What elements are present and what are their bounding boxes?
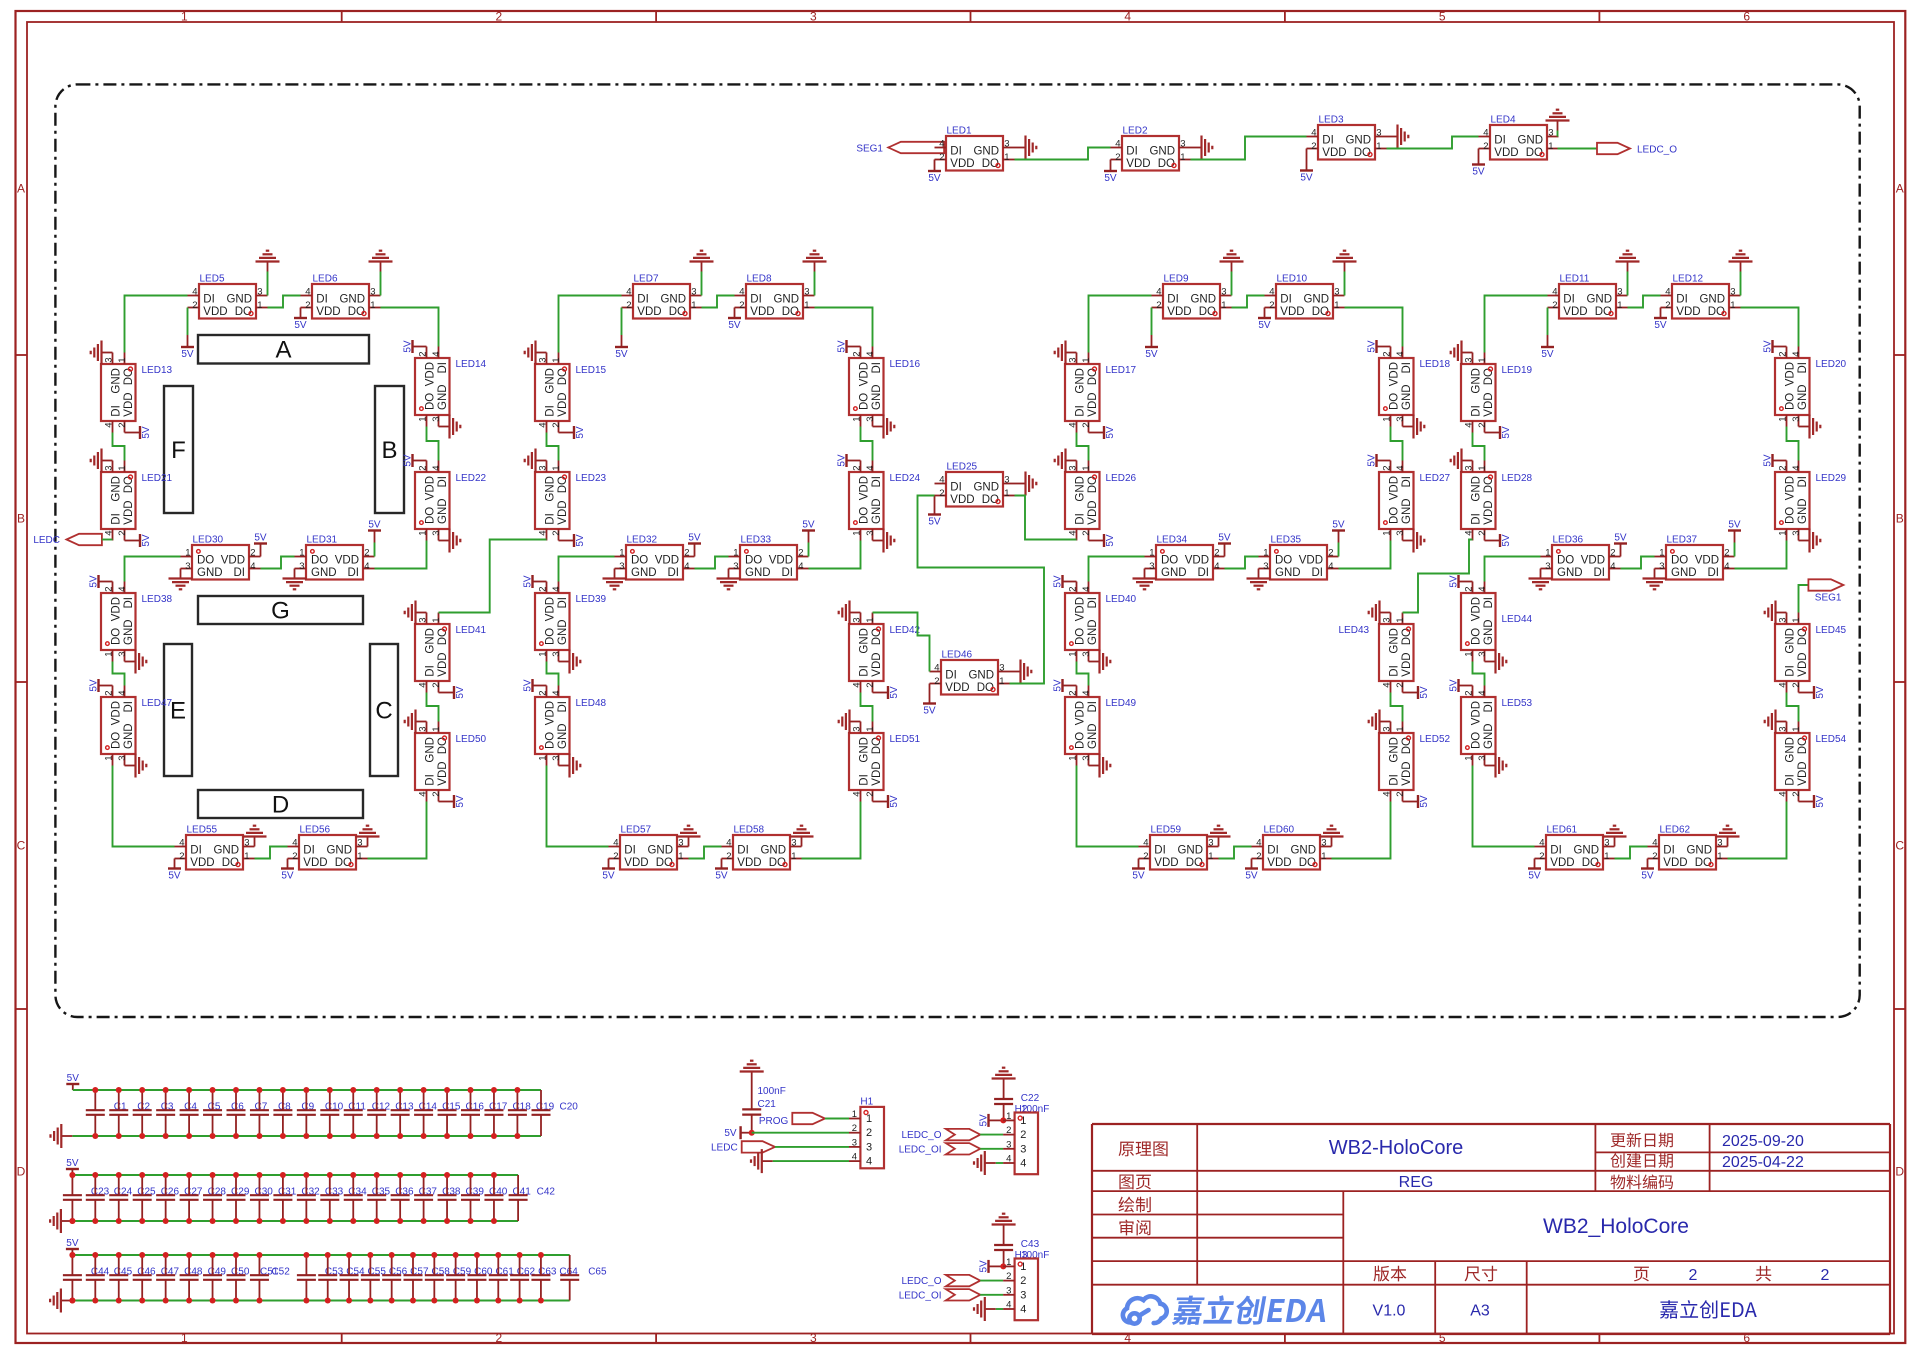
svg-text:VDD: VDD xyxy=(871,761,883,785)
svg-text:2: 2 xyxy=(1382,465,1393,470)
svg-text:DI: DI xyxy=(545,405,557,417)
svg-text:1: 1 xyxy=(1464,652,1475,657)
port LEDC_OI xyxy=(899,1143,981,1155)
svg-text:4: 4 xyxy=(1395,465,1406,470)
svg-text:3: 3 xyxy=(1464,465,1475,470)
5V (LED46) xyxy=(923,684,936,717)
svg-text:VDD: VDD xyxy=(1785,362,1797,386)
svg-text:DI: DI xyxy=(190,845,202,857)
svg-text:G: G xyxy=(271,598,290,625)
wire xyxy=(1219,847,1252,859)
svg-text:5V: 5V xyxy=(1815,795,1826,808)
svg-text:DI: DI xyxy=(545,513,557,525)
wire xyxy=(1741,308,1799,347)
5V (LED49) xyxy=(1053,679,1077,692)
ground (LED57) xyxy=(677,826,701,847)
capacitor C31 xyxy=(250,1175,297,1221)
5V (LED43) xyxy=(1403,686,1431,699)
svg-text:GND: GND xyxy=(1573,845,1599,857)
svg-text:2: 2 xyxy=(1791,792,1802,797)
addressable LED LED19 xyxy=(1461,353,1533,433)
svg-text:DI: DI xyxy=(1708,567,1720,579)
ground (LED35) xyxy=(1247,569,1271,590)
5V (LED39) xyxy=(523,575,547,588)
svg-text:LED25: LED25 xyxy=(947,462,978,473)
svg-text:1: 1 xyxy=(299,548,304,559)
5V (LED10) xyxy=(1258,308,1271,332)
svg-text:2: 2 xyxy=(496,10,503,24)
svg-text:DI: DI xyxy=(1267,845,1279,857)
ground (LED59) xyxy=(1207,826,1231,847)
5V (LED24) xyxy=(837,454,861,467)
svg-text:3: 3 xyxy=(1081,652,1092,657)
svg-text:DI: DI xyxy=(557,597,569,609)
svg-text:1: 1 xyxy=(1068,652,1079,657)
wire LED46-LED25 xyxy=(918,496,1045,684)
svg-text:DI: DI xyxy=(1075,513,1087,525)
svg-text:1: 1 xyxy=(370,300,375,311)
svg-text:VDD: VDD xyxy=(1267,857,1291,869)
svg-text:DI: DI xyxy=(111,513,123,525)
ground (LED36) xyxy=(1529,569,1553,590)
header H2 xyxy=(1003,1111,1038,1174)
svg-text:DO: DO xyxy=(859,393,871,410)
capacitor C17 xyxy=(461,1090,508,1136)
svg-text:5V: 5V xyxy=(1105,426,1116,439)
svg-text:1: 1 xyxy=(1477,465,1488,470)
svg-text:1: 1 xyxy=(418,531,429,536)
svg-text:LED17: LED17 xyxy=(1106,365,1137,376)
svg-text:4: 4 xyxy=(117,586,128,591)
svg-text:5V: 5V xyxy=(1654,320,1667,331)
junction xyxy=(69,1172,75,1178)
svg-text:4: 4 xyxy=(431,351,442,356)
5V (LED4) xyxy=(1472,149,1485,178)
svg-text:D: D xyxy=(17,1164,26,1178)
addressable LED LED9 xyxy=(1152,274,1232,319)
addressable LED LED38 xyxy=(101,582,173,662)
junction xyxy=(210,1133,216,1139)
svg-text:3: 3 xyxy=(866,1141,872,1153)
addressable LED LED24 xyxy=(849,461,921,541)
junction xyxy=(491,1218,497,1224)
svg-text:LED23: LED23 xyxy=(576,473,607,484)
svg-text:1: 1 xyxy=(852,417,863,422)
junction xyxy=(374,1087,380,1093)
5V (LED20) xyxy=(1763,340,1787,353)
svg-text:1: 1 xyxy=(678,851,683,862)
addressable LED LED2 xyxy=(1111,126,1191,171)
svg-text:3: 3 xyxy=(538,465,549,470)
addressable LED LED23 xyxy=(535,461,607,541)
svg-text:5V: 5V xyxy=(1763,340,1774,353)
svg-text:1: 1 xyxy=(1004,488,1009,499)
junction xyxy=(350,1218,356,1224)
capacitor C43 xyxy=(994,1235,1039,1267)
addressable LED LED4 xyxy=(1479,115,1559,160)
junction xyxy=(69,1218,75,1224)
wire xyxy=(267,272,269,296)
wire xyxy=(547,662,559,686)
svg-text:5V: 5V xyxy=(523,575,534,588)
junction xyxy=(186,1087,192,1093)
capacitor C32 xyxy=(273,1175,320,1221)
svg-text:2: 2 xyxy=(1610,548,1615,559)
ground (LED27) xyxy=(1403,529,1425,553)
svg-text:5V: 5V xyxy=(403,454,414,467)
svg-text:3: 3 xyxy=(1006,1139,1011,1150)
svg-text:GND: GND xyxy=(111,476,123,502)
junction xyxy=(389,1298,395,1304)
svg-text:GND: GND xyxy=(871,498,883,524)
junction xyxy=(367,1298,373,1304)
wire xyxy=(1621,557,1655,569)
segment box E xyxy=(164,644,192,776)
svg-text:DI: DI xyxy=(668,567,680,579)
svg-text:DI: DI xyxy=(1075,405,1087,417)
svg-text:GND: GND xyxy=(1785,737,1797,763)
ground (cap bank) xyxy=(50,1289,72,1313)
svg-text:DI: DI xyxy=(111,405,123,417)
junction xyxy=(256,1133,262,1139)
svg-text:C52: C52 xyxy=(271,1267,290,1278)
svg-text:4: 4 xyxy=(739,287,744,298)
svg-text:3: 3 xyxy=(804,287,809,298)
svg-text:1: 1 xyxy=(1221,300,1226,311)
svg-text:5V: 5V xyxy=(1053,679,1064,692)
junction xyxy=(397,1087,403,1093)
svg-text:WB2-HoloCore: WB2-HoloCore xyxy=(1329,1137,1463,1159)
ground (LED3) xyxy=(1387,125,1409,149)
svg-text:LED22: LED22 xyxy=(456,473,487,484)
svg-text:C: C xyxy=(375,698,392,725)
wire xyxy=(113,662,125,686)
capacitor C16 xyxy=(438,1090,485,1136)
junction xyxy=(468,1133,474,1139)
5V (LED17) xyxy=(1089,426,1117,439)
wire xyxy=(1089,557,1145,582)
ground (LED50) xyxy=(405,710,427,734)
svg-text:1: 1 xyxy=(1006,1257,1011,1268)
addressable LED LED15 xyxy=(535,353,607,433)
5V (cap bank) xyxy=(66,1073,79,1090)
addressable LED LED16 xyxy=(849,347,921,427)
svg-text:SEG1: SEG1 xyxy=(1815,593,1842,604)
svg-text:2: 2 xyxy=(613,851,618,862)
addressable LED LED39 xyxy=(535,582,607,662)
port LEDC (input) xyxy=(33,534,102,546)
svg-text:3: 3 xyxy=(1334,287,1339,298)
svg-text:4: 4 xyxy=(1477,586,1488,591)
junction xyxy=(538,1252,544,1258)
junction xyxy=(210,1218,216,1224)
svg-text:GND: GND xyxy=(1586,294,1612,306)
svg-text:DO: DO xyxy=(545,628,557,645)
svg-text:LED7: LED7 xyxy=(634,274,659,285)
svg-text:4: 4 xyxy=(418,683,429,688)
ground (LED33) xyxy=(717,569,741,590)
junction xyxy=(280,1133,286,1139)
junction xyxy=(92,1252,98,1258)
svg-text:1: 1 xyxy=(804,300,809,311)
svg-text:5V: 5V xyxy=(1449,575,1460,588)
capacitor C63 xyxy=(510,1255,557,1301)
capacitor C18 xyxy=(484,1090,531,1136)
junction xyxy=(327,1087,333,1093)
svg-text:5V: 5V xyxy=(928,173,941,184)
svg-text:4: 4 xyxy=(1464,423,1475,428)
addressable LED LED50 xyxy=(415,722,487,802)
svg-text:VDD: VDD xyxy=(1563,306,1587,318)
svg-text:VDD: VDD xyxy=(871,652,883,676)
svg-text:2: 2 xyxy=(1006,1271,1011,1282)
svg-text:5V: 5V xyxy=(1501,426,1512,439)
ground (LED23) xyxy=(525,449,547,473)
svg-text:2: 2 xyxy=(1724,548,1729,559)
svg-text:VDD: VDD xyxy=(750,306,774,318)
svg-text:5V: 5V xyxy=(1105,534,1116,547)
junction xyxy=(421,1172,427,1178)
svg-text:GND: GND xyxy=(226,294,252,306)
svg-text:LED27: LED27 xyxy=(1420,473,1451,484)
svg-text:4: 4 xyxy=(1665,287,1670,298)
svg-text:LED62: LED62 xyxy=(1660,825,1691,836)
svg-text:4: 4 xyxy=(613,838,618,849)
capacitor C58 xyxy=(404,1255,451,1301)
svg-text:5V: 5V xyxy=(1419,686,1430,699)
svg-text:GND: GND xyxy=(557,723,569,749)
svg-text:2: 2 xyxy=(1143,851,1148,862)
addressable LED LED42 xyxy=(849,613,921,693)
junction xyxy=(116,1218,122,1224)
wire xyxy=(1077,433,1089,461)
svg-text:LED29: LED29 xyxy=(1816,473,1847,484)
capacitor C52 xyxy=(250,1255,290,1301)
svg-text:1: 1 xyxy=(117,357,128,362)
addressable LED LED43 xyxy=(1339,613,1414,693)
wire xyxy=(980,1148,1003,1150)
svg-text:4: 4 xyxy=(192,287,197,298)
svg-text:5V: 5V xyxy=(928,517,941,528)
svg-text:DI: DI xyxy=(950,146,962,158)
svg-text:LED33: LED33 xyxy=(741,535,772,546)
svg-text:1: 1 xyxy=(1395,726,1406,731)
svg-text:4: 4 xyxy=(104,423,115,428)
svg-text:VDD: VDD xyxy=(1322,147,1346,159)
addressable LED LED27 xyxy=(1379,461,1451,541)
svg-text:LED57: LED57 xyxy=(621,825,652,836)
ground (LED24) xyxy=(873,529,895,553)
svg-text:1: 1 xyxy=(551,465,562,470)
wire power rail xyxy=(73,1089,541,1091)
svg-text:DO: DO xyxy=(111,628,123,645)
svg-text:DI: DI xyxy=(1797,476,1809,488)
svg-text:GND: GND xyxy=(1389,737,1401,763)
ground (LED6) xyxy=(369,251,393,272)
junction xyxy=(453,1252,459,1258)
svg-text:VDD: VDD xyxy=(1494,147,1518,159)
ground (LED4) xyxy=(1546,110,1570,131)
svg-text:2: 2 xyxy=(538,586,549,591)
svg-text:3: 3 xyxy=(104,357,115,362)
svg-text:3: 3 xyxy=(810,1331,817,1345)
ground (LED43) xyxy=(1369,601,1391,625)
junction xyxy=(444,1172,450,1178)
junction xyxy=(233,1087,239,1093)
junction xyxy=(303,1252,309,1258)
junction xyxy=(410,1298,416,1304)
svg-text:4: 4 xyxy=(538,531,549,536)
port SEG1 (input) xyxy=(856,142,944,155)
wire xyxy=(980,1294,1003,1296)
capacitor C40 xyxy=(461,1175,508,1221)
svg-text:4: 4 xyxy=(852,683,863,688)
svg-text:1: 1 xyxy=(619,548,624,559)
svg-text:100nF: 100nF xyxy=(758,1086,786,1097)
svg-text:2025-09-20: 2025-09-20 xyxy=(1722,1133,1804,1150)
svg-text:GND: GND xyxy=(111,368,123,394)
ground (pin4) xyxy=(974,1297,996,1321)
junction xyxy=(431,1252,437,1258)
svg-text:4: 4 xyxy=(1610,561,1615,572)
svg-text:DI: DI xyxy=(1676,294,1688,306)
ground (LED52) xyxy=(1369,710,1391,734)
ground (LED48) xyxy=(559,754,581,778)
5V (LED27) xyxy=(1367,454,1391,467)
svg-text:5: 5 xyxy=(1439,10,1446,24)
svg-text:3: 3 xyxy=(1004,475,1009,486)
5V (LED57) xyxy=(602,859,615,882)
junction xyxy=(256,1298,262,1304)
svg-text:VDD: VDD xyxy=(203,306,227,318)
svg-text:A: A xyxy=(275,337,291,364)
svg-text:5V: 5V xyxy=(523,679,534,692)
svg-text:4: 4 xyxy=(1006,1300,1011,1311)
svg-text:2: 2 xyxy=(865,792,876,797)
wire xyxy=(380,272,382,296)
svg-text:5V: 5V xyxy=(1614,533,1627,544)
svg-text:C43: C43 xyxy=(1021,1239,1040,1250)
svg-text:GND: GND xyxy=(1087,723,1099,749)
5V (LED21) xyxy=(125,534,153,547)
svg-text:VDD: VDD xyxy=(425,362,437,386)
svg-text:DI: DI xyxy=(1494,135,1506,147)
junction xyxy=(116,1172,122,1178)
wire xyxy=(775,1146,849,1148)
wire LED4-LEDC_O xyxy=(1558,148,1598,150)
junction xyxy=(139,1172,145,1178)
wire xyxy=(702,296,735,308)
svg-text:5V: 5V xyxy=(1053,575,1064,588)
svg-text:LED60: LED60 xyxy=(1264,825,1295,836)
svg-text:5V: 5V xyxy=(181,349,194,360)
wire xyxy=(802,802,861,859)
svg-text:DI: DI xyxy=(1797,362,1809,374)
addressable LED LED11 xyxy=(1548,274,1628,319)
svg-text:D: D xyxy=(272,792,289,819)
svg-text:VDD: VDD xyxy=(437,761,449,785)
svg-text:5V: 5V xyxy=(1541,349,1554,360)
5V (LED13) xyxy=(125,426,153,439)
capacitor C14 xyxy=(391,1090,438,1136)
svg-text:LED3: LED3 xyxy=(1319,115,1344,126)
wire xyxy=(996,1308,1003,1310)
svg-text:4: 4 xyxy=(117,690,128,695)
5V (LED11) xyxy=(1541,308,1554,361)
svg-text:V1.0: V1.0 xyxy=(1373,1303,1406,1320)
title block xyxy=(1092,1124,1890,1334)
5V (LED1) xyxy=(928,160,941,185)
svg-text:2: 2 xyxy=(939,488,944,499)
svg-text:4: 4 xyxy=(1068,531,1079,536)
svg-text:DO: DO xyxy=(1471,628,1483,645)
wire xyxy=(1557,131,1559,137)
wire xyxy=(113,433,125,461)
svg-text:GND: GND xyxy=(1303,294,1329,306)
junction xyxy=(210,1087,216,1093)
capacitor C15 xyxy=(414,1090,461,1136)
wire xyxy=(1799,585,1809,613)
addressable LED LED55 xyxy=(175,825,255,870)
segment box C xyxy=(370,644,398,776)
svg-text:LED51: LED51 xyxy=(890,734,921,745)
5V (LED7) xyxy=(615,308,628,361)
svg-text:3: 3 xyxy=(117,756,128,761)
capacitor C21 xyxy=(742,1082,786,1133)
svg-text:1: 1 xyxy=(418,417,429,422)
svg-text:3: 3 xyxy=(865,417,876,422)
port LEDC_O xyxy=(901,1129,980,1141)
wire xyxy=(1740,272,1742,296)
svg-text:VDD: VDD xyxy=(1087,500,1099,524)
junction xyxy=(538,1298,544,1304)
svg-text:3: 3 xyxy=(1730,287,1735,298)
svg-text:2: 2 xyxy=(1006,1125,1011,1136)
svg-text:5V: 5V xyxy=(1815,686,1826,699)
svg-text:3: 3 xyxy=(104,465,115,470)
svg-text:3: 3 xyxy=(299,561,304,572)
5V (LED23) xyxy=(559,534,587,547)
junction xyxy=(389,1252,395,1258)
svg-text:4: 4 xyxy=(1724,561,1729,572)
ground (pin4) xyxy=(974,1151,996,1175)
svg-text:DO: DO xyxy=(745,555,762,567)
svg-text:1: 1 xyxy=(1068,756,1079,761)
svg-text:1: 1 xyxy=(1149,548,1154,559)
svg-text:GND: GND xyxy=(1275,567,1301,579)
addressable LED LED8 xyxy=(735,274,815,319)
svg-text:DI: DI xyxy=(1663,845,1675,857)
ground (LED42) xyxy=(839,601,861,625)
junction xyxy=(233,1218,239,1224)
addressable LED LED22 xyxy=(415,461,487,541)
addressable LED LED52 xyxy=(1379,722,1451,802)
5V (LED40) xyxy=(1053,575,1077,588)
svg-text:3: 3 xyxy=(1208,838,1213,849)
svg-text:3: 3 xyxy=(1081,756,1092,761)
addressable LED LED1 xyxy=(935,126,1015,171)
svg-text:DI: DI xyxy=(425,665,437,677)
5V (LED15) xyxy=(559,426,587,439)
svg-text:DI: DI xyxy=(1785,774,1797,786)
svg-text:4: 4 xyxy=(866,1156,872,1168)
svg-text:2: 2 xyxy=(1020,1129,1026,1141)
svg-text:1: 1 xyxy=(1004,152,1009,163)
svg-text:1: 1 xyxy=(257,300,262,311)
svg-text:2: 2 xyxy=(1652,851,1657,862)
5V (LED53) xyxy=(1449,679,1473,692)
svg-text:2: 2 xyxy=(1214,548,1219,559)
